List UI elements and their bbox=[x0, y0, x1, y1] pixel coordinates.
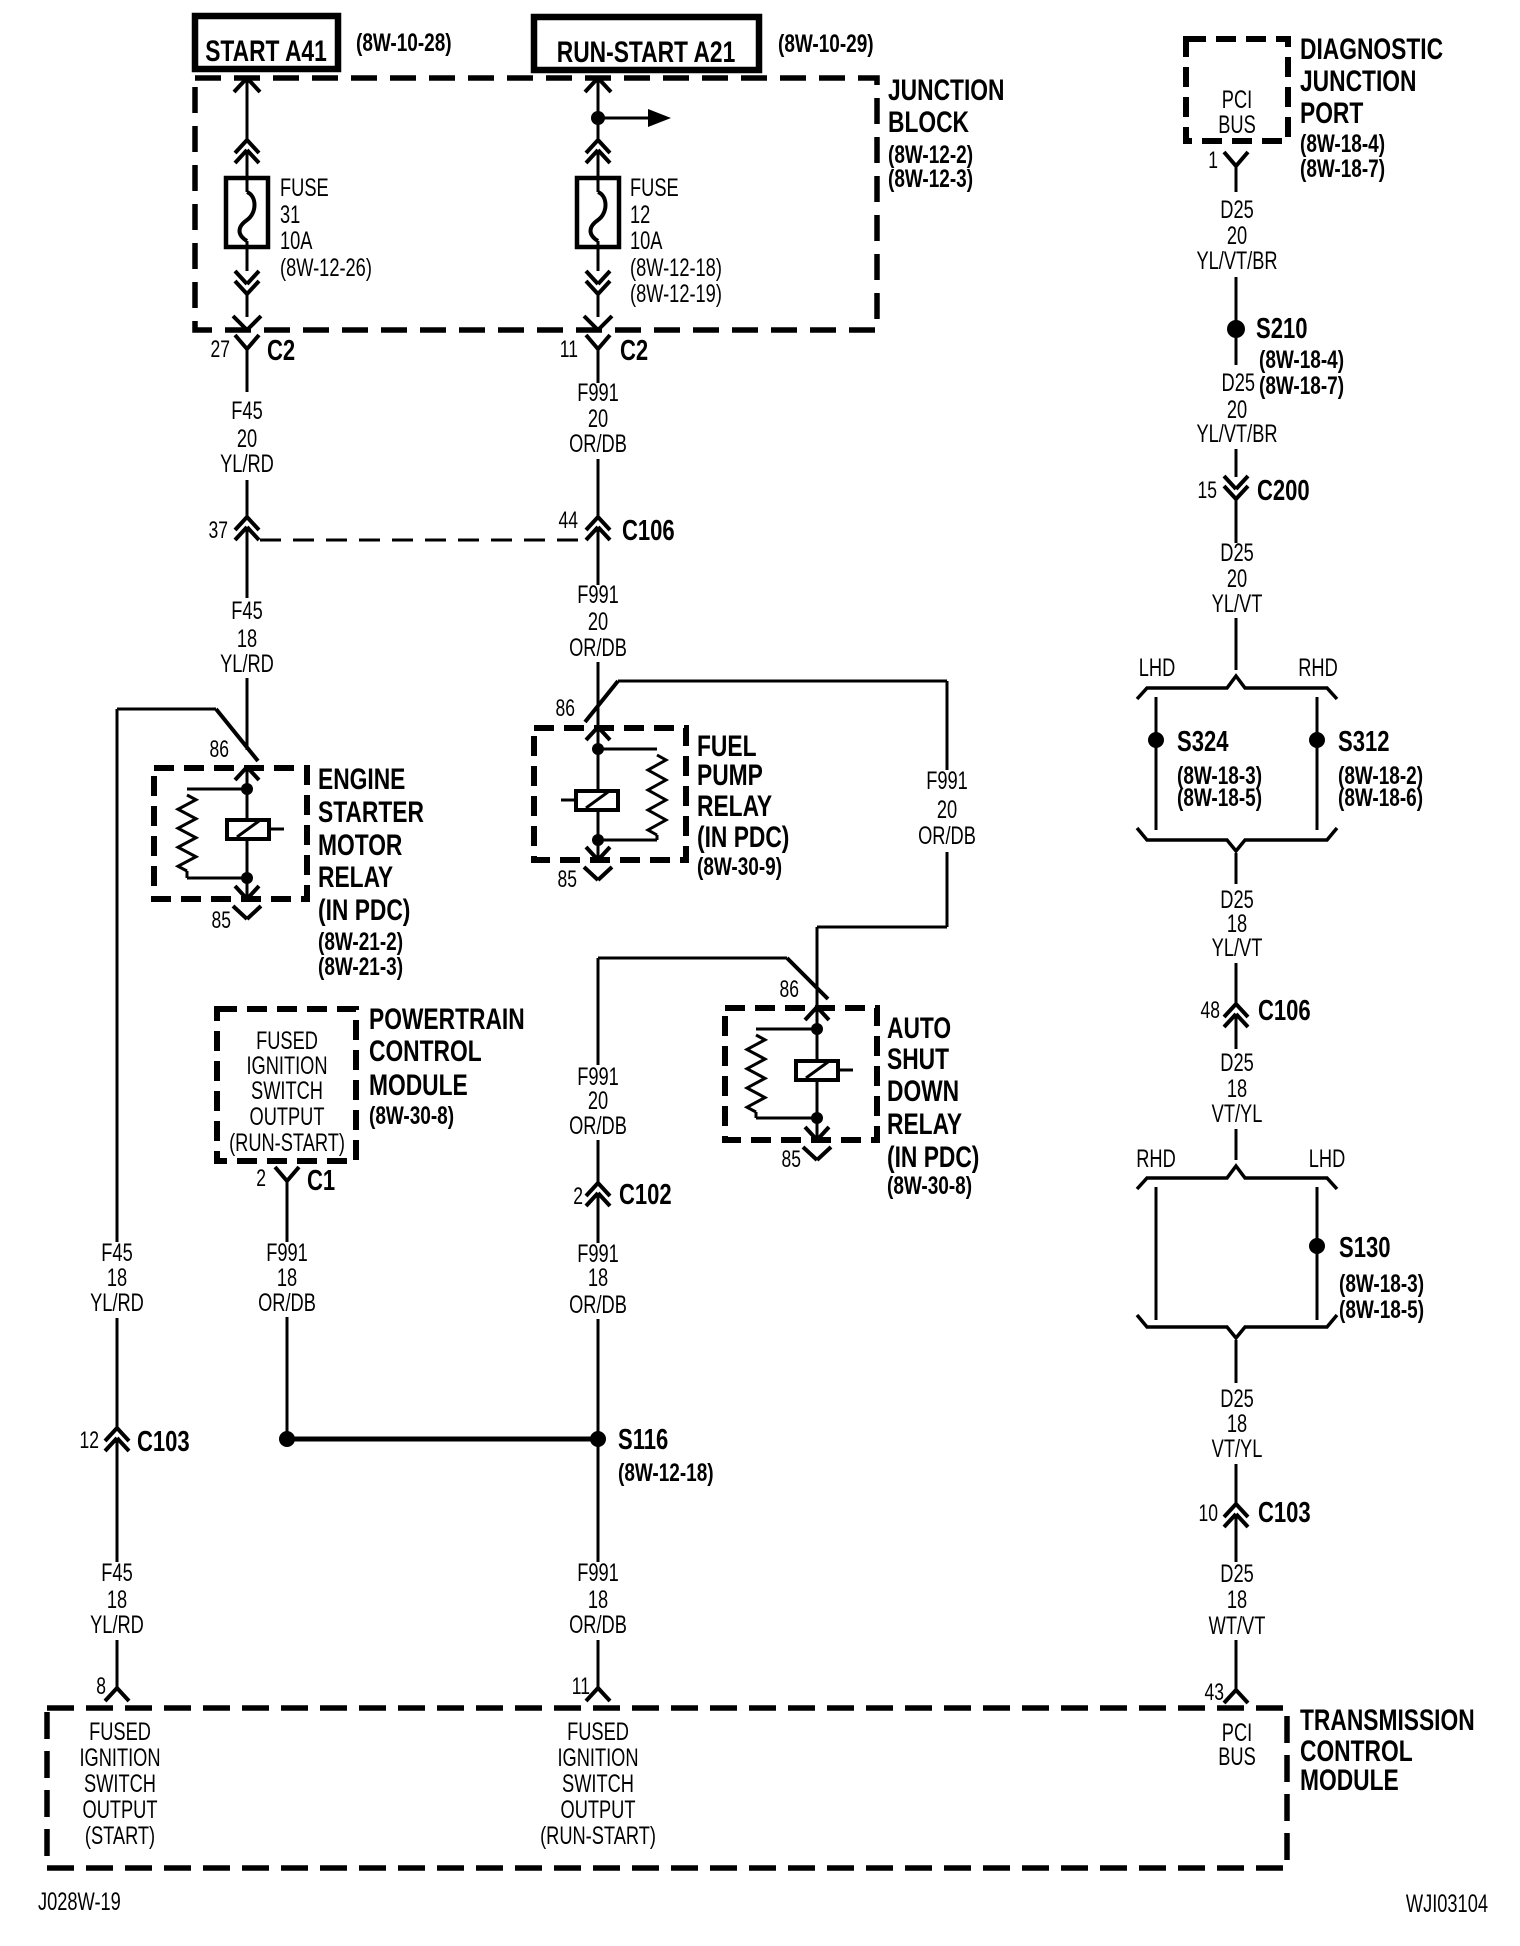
svg-text:C1: C1 bbox=[307, 1165, 335, 1197]
svg-text:(8W-12-18): (8W-12-18) bbox=[618, 1458, 714, 1486]
svg-text:(8W-21-3): (8W-21-3) bbox=[318, 952, 403, 980]
reference (8W-18-5) bbox=[1339, 1295, 1424, 1323]
junction dot at PCM branch bbox=[279, 1431, 295, 1447]
wire D25 20 YL/VT/BR label bbox=[1196, 195, 1277, 275]
svg-text:YL/VT/BR: YL/VT/BR bbox=[1196, 246, 1277, 275]
svg-text:OR/DB: OR/DB bbox=[569, 429, 627, 458]
pin 86 label bbox=[556, 695, 575, 721]
splice S210 dot bbox=[1227, 320, 1245, 338]
svg-text:18: 18 bbox=[588, 1263, 608, 1292]
svg-text:(8W-18-7): (8W-18-7) bbox=[1259, 371, 1344, 399]
svg-text:J028W-19: J028W-19 bbox=[38, 1887, 121, 1916]
fuse 12 10A bbox=[577, 178, 619, 247]
pin 11 label bbox=[572, 1673, 590, 1699]
wire bbox=[1235, 853, 1238, 884]
wire bbox=[597, 294, 600, 317]
svg-text:(8W-12-26): (8W-12-26) bbox=[280, 253, 372, 282]
wire D25 18 VT/YL label bbox=[1212, 1048, 1263, 1128]
svg-text:(8W-30-9): (8W-30-9) bbox=[697, 852, 782, 880]
engine starter motor relay label bbox=[318, 762, 424, 981]
splice S130 name bbox=[1339, 1232, 1390, 1264]
wire F45 18 YL/RD label bbox=[220, 596, 274, 678]
svg-text:SHUT: SHUT bbox=[887, 1042, 949, 1076]
splice S312 name bbox=[1338, 726, 1389, 758]
auto shut down relay dashed box bbox=[725, 1008, 877, 1140]
drawing code WJI03104 bbox=[1406, 1889, 1488, 1918]
svg-text:SWITCH: SWITCH bbox=[251, 1076, 323, 1105]
svg-text:STARTER: STARTER bbox=[318, 795, 424, 829]
svg-text:DIAGNOSTIC: DIAGNOSTIC bbox=[1300, 32, 1443, 66]
wire D25 18 VT/YL label bbox=[1212, 1384, 1263, 1463]
pin 8 label bbox=[96, 1673, 106, 1699]
wire bbox=[1235, 963, 1238, 1004]
wire bbox=[1235, 1340, 1238, 1383]
svg-text:YL/VT: YL/VT bbox=[1212, 933, 1263, 962]
svg-text:(8W-18-6): (8W-18-6) bbox=[1338, 783, 1423, 811]
relay pin 85 chevrons bbox=[233, 878, 261, 919]
svg-text:D25: D25 bbox=[1220, 1048, 1253, 1077]
fuel pump relay label bbox=[697, 729, 789, 881]
reference (8W-12-18) bbox=[618, 1458, 714, 1486]
svg-text:YL/RD: YL/RD bbox=[220, 649, 274, 678]
PCM internal label bbox=[229, 1026, 345, 1157]
sheet code J028W-19 bbox=[38, 1887, 121, 1916]
svg-text:DOWN: DOWN bbox=[887, 1074, 959, 1108]
arrow into START A41 bbox=[234, 78, 260, 140]
svg-text:(8W-18-4): (8W-18-4) bbox=[1259, 345, 1344, 373]
wire D25 20 YL/VT label bbox=[1212, 538, 1263, 618]
splice S324 name bbox=[1177, 726, 1229, 758]
svg-text:IGNITION: IGNITION bbox=[79, 1743, 160, 1772]
relay suppression resistor bbox=[178, 789, 247, 878]
svg-text:(8W-21-2): (8W-21-2) bbox=[318, 927, 403, 955]
svg-text:RELAY: RELAY bbox=[318, 860, 393, 894]
splice link wire bbox=[287, 1437, 598, 1442]
svg-text:YL/RD: YL/RD bbox=[90, 1288, 144, 1317]
svg-text:YL/RD: YL/RD bbox=[90, 1610, 144, 1639]
svg-text:C200: C200 bbox=[1257, 475, 1310, 507]
wire bbox=[1235, 618, 1238, 670]
junction block label bbox=[888, 73, 1004, 193]
RHD label bbox=[1298, 653, 1338, 682]
wire F991 18 OR/DB label bbox=[569, 1239, 627, 1319]
svg-text:START A41: START A41 bbox=[205, 34, 327, 68]
svg-text:FUSE: FUSE bbox=[630, 173, 679, 202]
dashed link between C106 halves bbox=[260, 539, 585, 542]
svg-text:31: 31 bbox=[280, 200, 300, 229]
fuse 12 label bbox=[630, 173, 722, 308]
engine starter motor relay dashed box bbox=[154, 768, 307, 899]
relay pin 86 fork bbox=[235, 767, 259, 789]
relay suppression resistor bbox=[598, 749, 666, 840]
svg-text:27: 27 bbox=[211, 336, 230, 362]
svg-text:RHD: RHD bbox=[1298, 653, 1338, 682]
connector C103 pin 10 chevrons bbox=[1224, 1504, 1248, 1562]
branch arrow to other circuits bbox=[598, 109, 671, 127]
wire bbox=[597, 1319, 600, 1439]
wire bbox=[1235, 449, 1238, 477]
svg-text:LHD: LHD bbox=[1139, 653, 1175, 682]
switch diagonal at fuel pump relay pin 86 bbox=[585, 681, 618, 722]
PCI BUS internal label bbox=[1218, 85, 1256, 139]
pin 43 label bbox=[1205, 1679, 1224, 1705]
wire F991 20 OR/DB label bbox=[569, 1062, 627, 1140]
relay pin 85 chevrons bbox=[803, 1118, 831, 1160]
connector C200 pin 15 chevrons bbox=[1224, 476, 1248, 543]
relay coil top junction dot bbox=[241, 783, 253, 795]
relay coil bbox=[796, 1029, 853, 1118]
svg-text:11: 11 bbox=[572, 1673, 590, 1699]
svg-text:VT/YL: VT/YL bbox=[1212, 1099, 1263, 1128]
svg-text:44: 44 bbox=[559, 507, 579, 533]
svg-text:12: 12 bbox=[80, 1427, 99, 1453]
svg-text:10: 10 bbox=[1199, 1500, 1218, 1526]
branch wire to PCM/TCM splice bbox=[598, 958, 787, 1065]
svg-text:85: 85 bbox=[212, 907, 231, 933]
svg-text:(8W-18-3): (8W-18-3) bbox=[1339, 1269, 1424, 1297]
svg-text:OUTPUT: OUTPUT bbox=[250, 1102, 325, 1131]
svg-text:F991: F991 bbox=[577, 378, 619, 407]
transmission control module dashed box bbox=[47, 1708, 1287, 1868]
wire bbox=[1235, 1464, 1238, 1504]
svg-text:SWITCH: SWITCH bbox=[84, 1769, 156, 1798]
connector C2 pin 11 fork bbox=[586, 335, 610, 383]
wire bbox=[597, 662, 600, 750]
svg-text:YL/VT/BR: YL/VT/BR bbox=[1196, 419, 1277, 448]
wire F991 18 OR/DB label bbox=[258, 1238, 316, 1317]
connector C102 pin 2 chevrons bbox=[586, 1183, 610, 1243]
LHD branch wire bbox=[1155, 697, 1158, 830]
svg-text:FUSE: FUSE bbox=[280, 173, 329, 202]
branch wire to ASD relay feed bbox=[618, 681, 947, 770]
fuse 31 label bbox=[280, 173, 372, 282]
harness split brace bottom bbox=[1137, 1315, 1337, 1338]
TCM internal PCI BUS label bbox=[1218, 1718, 1256, 1771]
TCM internal label run-start output bbox=[540, 1717, 656, 1850]
svg-text:86: 86 bbox=[556, 695, 575, 721]
powertrain control module dashed box bbox=[217, 1009, 356, 1161]
svg-text:(8W-12-19): (8W-12-19) bbox=[630, 279, 722, 308]
switch diagonal at ASD relay pin 86 bbox=[787, 958, 828, 999]
relay coil bottom junction dot bbox=[241, 872, 253, 884]
svg-text:(IN PDC): (IN PDC) bbox=[887, 1140, 979, 1174]
wire bbox=[246, 294, 249, 317]
pin 48 label bbox=[1201, 997, 1220, 1023]
svg-text:OUTPUT: OUTPUT bbox=[83, 1795, 158, 1824]
connector C2 name bbox=[267, 335, 295, 367]
relay coil bbox=[227, 789, 284, 878]
junction block dashed outline bbox=[195, 78, 877, 330]
relay coil bottom junction dot bbox=[592, 834, 604, 846]
svg-text:S324: S324 bbox=[1177, 726, 1229, 758]
connector C1 name bbox=[307, 1165, 335, 1197]
fuel pump relay dashed box bbox=[534, 728, 686, 860]
relay coil bbox=[561, 749, 618, 840]
svg-text:D25: D25 bbox=[1220, 1559, 1253, 1588]
relay suppression resistor bbox=[747, 1029, 817, 1118]
connector C103 pin 12 chevrons bbox=[105, 1428, 129, 1562]
svg-text:S312: S312 bbox=[1338, 726, 1389, 758]
pin 2 label bbox=[256, 1165, 266, 1191]
svg-text:(RUN-START): (RUN-START) bbox=[229, 1128, 345, 1157]
wire bbox=[246, 150, 249, 192]
svg-text:10A: 10A bbox=[630, 226, 663, 255]
svg-text:85: 85 bbox=[558, 866, 577, 892]
splice S312 dot bbox=[1309, 732, 1325, 748]
connector C1 pin 2 fork bbox=[275, 1167, 299, 1242]
wire bbox=[597, 459, 600, 517]
wire bbox=[597, 1439, 600, 1562]
splice S210 name bbox=[1256, 313, 1307, 345]
pin 2 label bbox=[573, 1183, 583, 1209]
svg-text:11: 11 bbox=[560, 336, 578, 362]
svg-text:LHD: LHD bbox=[1309, 1144, 1345, 1173]
svg-text:8: 8 bbox=[96, 1673, 106, 1699]
wire F45 20 YL/RD label bbox=[220, 396, 274, 478]
svg-text:BLOCK: BLOCK bbox=[888, 105, 969, 139]
arrow into RUN-START A21 bbox=[585, 78, 611, 118]
wire 20 YL/VT/BR label bbox=[1196, 395, 1277, 448]
wire bbox=[1235, 1129, 1238, 1160]
fuse 31 10A bbox=[226, 178, 268, 247]
wire F991 18 OR/DB label bbox=[569, 1558, 627, 1639]
connector C103 name bbox=[137, 1426, 190, 1458]
wire D25 label bbox=[1222, 368, 1255, 397]
wire F991 20 OR/DB label bbox=[569, 378, 627, 458]
wire bbox=[116, 1640, 119, 1688]
wire bbox=[597, 118, 600, 140]
svg-text:WT/VT: WT/VT bbox=[1209, 1611, 1266, 1640]
svg-text:RELAY: RELAY bbox=[697, 789, 772, 823]
svg-text:OR/DB: OR/DB bbox=[918, 821, 976, 850]
wire bbox=[246, 241, 249, 271]
TCM pin 43 fork bbox=[1224, 1690, 1248, 1703]
svg-text:1: 1 bbox=[1208, 147, 1218, 173]
pin 85 label bbox=[212, 907, 231, 933]
svg-text:D25: D25 bbox=[1222, 368, 1255, 397]
svg-text:C102: C102 bbox=[619, 1179, 672, 1211]
diagnostic junction port label bbox=[1300, 32, 1443, 183]
wire F45 18 YL/RD label bbox=[90, 1238, 144, 1317]
svg-text:(8W-10-28): (8W-10-28) bbox=[356, 28, 452, 56]
wire F991 20 OR/DB label bbox=[569, 580, 627, 662]
svg-text:2: 2 bbox=[256, 1165, 266, 1191]
svg-text:(8W-10-29): (8W-10-29) bbox=[778, 29, 874, 57]
svg-text:(8W-18-7): (8W-18-7) bbox=[1300, 154, 1385, 182]
svg-text:PUMP: PUMP bbox=[697, 758, 763, 792]
connector chevrons below fuse 31 bbox=[235, 271, 259, 294]
svg-text:FUSED: FUSED bbox=[567, 1717, 629, 1746]
svg-text:OR/DB: OR/DB bbox=[569, 1290, 627, 1319]
harness split brace top bbox=[1137, 1166, 1337, 1189]
relay coil top junction dot bbox=[592, 743, 604, 755]
wire F991 20 OR/DB label bbox=[918, 766, 976, 850]
svg-text:PORT: PORT bbox=[1300, 96, 1363, 130]
RHD branch wire bbox=[1155, 1187, 1158, 1320]
connector C103 name bbox=[1258, 1497, 1311, 1529]
relay pin 85 chevrons bbox=[584, 840, 612, 880]
connector C106 name bbox=[622, 515, 675, 547]
svg-text:JUNCTION: JUNCTION bbox=[1300, 64, 1416, 98]
RHD branch wire bbox=[1316, 697, 1319, 830]
connector chevrons above fuse 31 bbox=[235, 140, 259, 163]
svg-text:10A: 10A bbox=[280, 226, 313, 255]
relay pin 86 fork bbox=[805, 1007, 829, 1029]
svg-text:RUN-START A21: RUN-START A21 bbox=[557, 35, 736, 69]
svg-text:C2: C2 bbox=[267, 335, 295, 367]
svg-text:(8W-12-3): (8W-12-3) bbox=[888, 164, 973, 192]
reference (8W-18-4) bbox=[1259, 345, 1344, 373]
svg-text:37: 37 bbox=[209, 517, 228, 543]
relay coil top junction dot bbox=[811, 1023, 823, 1035]
svg-text:F45: F45 bbox=[101, 1558, 132, 1587]
arrow out of junction block bbox=[233, 316, 261, 330]
transmission control module label bbox=[1300, 1703, 1475, 1797]
relay pin 86 fork bbox=[586, 727, 610, 749]
connector C106 pin 48 chevrons bbox=[1224, 1004, 1248, 1049]
reference (8W-10-29) bbox=[778, 29, 874, 57]
wire bbox=[246, 678, 249, 750]
svg-text:2: 2 bbox=[573, 1183, 583, 1209]
pin 27 label bbox=[211, 336, 230, 362]
pin 86 label bbox=[210, 736, 229, 762]
svg-text:F45: F45 bbox=[231, 596, 262, 625]
svg-text:FUSED: FUSED bbox=[89, 1717, 151, 1746]
svg-text:15: 15 bbox=[1198, 477, 1217, 503]
connector C2 name bbox=[620, 335, 648, 367]
svg-text:(8W-12-18): (8W-12-18) bbox=[630, 253, 722, 282]
reference (8W-18-2) bbox=[1338, 761, 1423, 789]
svg-text:VT/YL: VT/YL bbox=[1212, 1434, 1263, 1463]
pin 11 label bbox=[560, 336, 578, 362]
LHD label bbox=[1309, 1144, 1345, 1173]
svg-text:(IN PDC): (IN PDC) bbox=[697, 820, 789, 854]
svg-text:WJI03104: WJI03104 bbox=[1406, 1889, 1488, 1918]
harness split brace bottom bbox=[1137, 828, 1337, 851]
connector C106 pin 44 chevrons bbox=[586, 517, 610, 585]
svg-text:CONTROL: CONTROL bbox=[369, 1034, 482, 1068]
pin 12 label bbox=[80, 1427, 99, 1453]
svg-text:D25: D25 bbox=[1220, 538, 1253, 567]
relay coil bottom junction dot bbox=[811, 1112, 823, 1124]
svg-text:C103: C103 bbox=[1258, 1497, 1311, 1529]
svg-text:OR/DB: OR/DB bbox=[258, 1288, 316, 1317]
harness split brace top bbox=[1137, 676, 1337, 699]
svg-text:43: 43 bbox=[1205, 1679, 1224, 1705]
reference (8W-18-3) bbox=[1339, 1269, 1424, 1297]
svg-text:(8W-18-4): (8W-18-4) bbox=[1300, 129, 1385, 157]
arrow out of junction block bbox=[584, 316, 612, 330]
svg-text:BUS: BUS bbox=[1218, 1742, 1256, 1771]
LHD label bbox=[1139, 653, 1175, 682]
wire bbox=[597, 150, 600, 192]
pin 10 label bbox=[1199, 1500, 1218, 1526]
svg-text:86: 86 bbox=[210, 736, 229, 762]
svg-text:OR/DB: OR/DB bbox=[569, 1111, 627, 1140]
TCM pin 11 fork bbox=[586, 1688, 610, 1701]
svg-text:IGNITION: IGNITION bbox=[557, 1743, 638, 1772]
svg-text:OR/DB: OR/DB bbox=[569, 633, 627, 662]
svg-text:(8W-30-8): (8W-30-8) bbox=[369, 1101, 454, 1129]
svg-text:18: 18 bbox=[1227, 1585, 1247, 1614]
connector chevrons above fuse 12 bbox=[586, 140, 610, 163]
svg-text:(8W-30-8): (8W-30-8) bbox=[887, 1171, 972, 1199]
svg-text:RELAY: RELAY bbox=[887, 1107, 962, 1141]
reference (8W-18-7) bbox=[1259, 371, 1344, 399]
junction dot at A21 feed bbox=[591, 111, 605, 125]
svg-text:20: 20 bbox=[588, 607, 608, 636]
TCM pin 8 fork bbox=[105, 1688, 129, 1701]
svg-text:MOTOR: MOTOR bbox=[318, 828, 402, 862]
connector C2 pin 27 fork bbox=[235, 335, 259, 392]
wire D25 18 WT/VT label bbox=[1209, 1559, 1266, 1640]
svg-text:C2: C2 bbox=[620, 335, 648, 367]
TCM internal label start output bbox=[79, 1717, 160, 1850]
pin 1 label bbox=[1208, 147, 1218, 173]
wire bbox=[246, 480, 249, 517]
pin 37 label bbox=[209, 517, 228, 543]
svg-text:MODULE: MODULE bbox=[1300, 1763, 1399, 1797]
power node START A41 box bbox=[195, 16, 338, 69]
svg-text:MODULE: MODULE bbox=[369, 1068, 468, 1102]
splice S130 dot bbox=[1309, 1238, 1325, 1254]
svg-text:(8W-18-5): (8W-18-5) bbox=[1339, 1295, 1424, 1323]
svg-text:F991: F991 bbox=[577, 1558, 619, 1587]
svg-text:POWERTRAIN: POWERTRAIN bbox=[369, 1002, 525, 1036]
svg-text:S130: S130 bbox=[1339, 1232, 1390, 1264]
svg-text:C106: C106 bbox=[622, 515, 675, 547]
wire F45 18 YL/RD label bbox=[90, 1558, 144, 1639]
reference (8W-18-6) bbox=[1338, 783, 1423, 811]
svg-text:F45: F45 bbox=[231, 396, 262, 425]
connector C106 pin 37 chevrons bbox=[235, 517, 259, 598]
connector C102 name bbox=[619, 1179, 672, 1211]
connector pin 1 fork bbox=[1224, 152, 1248, 192]
svg-text:86: 86 bbox=[780, 976, 799, 1002]
pin 15 label bbox=[1198, 477, 1217, 503]
svg-text:(IN PDC): (IN PDC) bbox=[318, 893, 410, 927]
svg-text:12: 12 bbox=[630, 200, 650, 229]
svg-text:AUTO: AUTO bbox=[887, 1011, 951, 1045]
reference (8W-18-5) bbox=[1177, 783, 1262, 811]
powertrain control module label bbox=[369, 1002, 525, 1130]
LHD branch wire bbox=[1316, 1187, 1319, 1320]
svg-text:SWITCH: SWITCH bbox=[562, 1769, 634, 1798]
svg-text:RHD: RHD bbox=[1136, 1144, 1176, 1173]
svg-text:48: 48 bbox=[1201, 997, 1220, 1023]
splice S116 dot bbox=[590, 1431, 606, 1447]
splice S324 dot bbox=[1148, 732, 1164, 748]
svg-text:BUS: BUS bbox=[1218, 110, 1256, 139]
wire bbox=[1235, 338, 1238, 365]
svg-text:OUTPUT: OUTPUT bbox=[561, 1795, 636, 1824]
switch diagonal at starter relay pin 86 bbox=[216, 709, 258, 761]
svg-text:YL/VT: YL/VT bbox=[1212, 589, 1263, 618]
wire jog to ASD relay bbox=[817, 852, 947, 1007]
svg-text:S116: S116 bbox=[618, 1424, 668, 1456]
svg-text:(START): (START) bbox=[85, 1821, 155, 1850]
wire bbox=[116, 1318, 119, 1428]
diagnostic junction port dashed box bbox=[1186, 39, 1288, 141]
svg-text:S210: S210 bbox=[1256, 313, 1307, 345]
svg-text:YL/RD: YL/RD bbox=[220, 449, 274, 478]
connector chevrons below fuse 12 bbox=[586, 271, 610, 294]
branch wire to C103 bbox=[117, 709, 216, 1242]
svg-text:ENGINE: ENGINE bbox=[318, 762, 405, 796]
wire D25 18 YL/VT label bbox=[1212, 885, 1263, 962]
wire bbox=[597, 1640, 600, 1688]
wire bbox=[1235, 277, 1238, 321]
